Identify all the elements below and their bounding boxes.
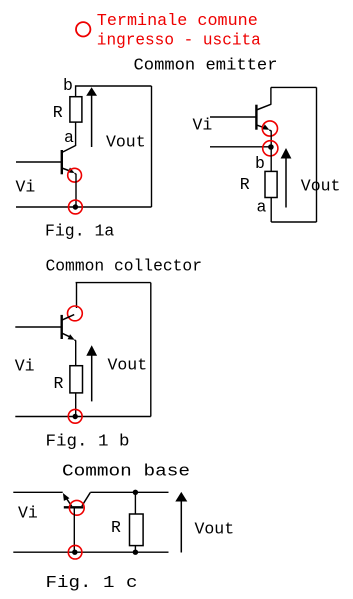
resistor R1 (Fig 1a) — [70, 97, 82, 122]
wire base input (right fig) — [210, 116, 256, 118]
wire base input (Fig 1b) — [15, 326, 61, 328]
svg-text:ingresso - uscita: ingresso - uscita — [97, 30, 261, 49]
resistor R4 — [130, 514, 144, 546]
Vout arrowhead (Fig 1b) — [86, 345, 97, 356]
wire top (Fig 1a) — [76, 86, 152, 97]
wire resistor bottom (Fig 1c) — [134, 546, 136, 553]
Vout arrowhead (right fig) — [281, 148, 292, 159]
wire resistor top (Fig 1c) — [134, 492, 136, 514]
svg-text:Common emitter: Common emitter — [134, 56, 278, 75]
transistor Q4 emitter arrowhead — [63, 493, 70, 501]
svg-text:b: b — [255, 154, 265, 173]
transistor Q1 collector diagonal — [62, 146, 76, 153]
legend terminal circle — [76, 22, 90, 36]
transistor Q3 emitter diagonal — [62, 333, 72, 338]
svg-text:a: a — [257, 197, 267, 216]
transistor Q3 collector diagonal — [62, 315, 74, 321]
svg-text:Vout: Vout — [108, 356, 148, 375]
junction dot base bottom (Fig 1c) — [72, 550, 77, 555]
wire collector up (right fig) — [270, 87, 272, 104]
svg-text:Vout: Vout — [195, 520, 235, 539]
wire bottom (Fig 1c) — [13, 551, 168, 553]
wire top (right fig) — [271, 86, 317, 88]
red circle bottom terminal (Fig 1a) — [69, 200, 83, 214]
Vout arrow line (right fig) — [285, 157, 287, 208]
transistor Q4 base bar — [64, 506, 84, 508]
svg-text:Fig. 1 c: Fig. 1 c — [46, 573, 138, 592]
wire base down (Fig 1c) — [73, 507, 75, 552]
transistor Q4 collector diagonal — [82, 493, 90, 507]
junction dot resistor bottom (Fig 1c) — [133, 550, 138, 555]
wire resistor to bottom (Fig 1b) — [75, 393, 77, 417]
wire collector down (Fig 1b) — [76, 283, 78, 308]
svg-text:R: R — [240, 175, 250, 194]
wire base input (Fig 1a) — [16, 161, 61, 163]
svg-text:b: b — [63, 76, 73, 95]
transistor Q2 emitter arrowhead — [262, 124, 269, 129]
transistor Q1 emitter arrowhead — [68, 168, 75, 174]
junction dot (right fig) — [268, 144, 274, 150]
Vout arrow line (Fig 1c) — [180, 501, 182, 553]
Vout arrow line (Fig 1a) — [91, 95, 93, 147]
wire top left (Fig 1c) — [13, 491, 62, 493]
Vout arrowhead (Fig 1c) — [175, 492, 187, 502]
wire resistor to bottom (right fig) — [270, 198, 272, 223]
wire emitter down (Fig 1b) — [75, 340, 76, 366]
wire bottom (Fig 1b) — [15, 416, 151, 418]
svg-text:Vi: Vi — [16, 178, 36, 197]
svg-text:Terminale comune: Terminale comune — [97, 11, 258, 30]
transistor Q4 emitter diagonal — [67, 499, 72, 507]
red circle emitter terminal (right fig) — [262, 121, 277, 136]
wire input 2 (right fig) — [210, 146, 271, 148]
wire right side (Fig 1a) — [151, 86, 153, 207]
junction dot bottom (Fig 1b) — [73, 414, 78, 419]
svg-text:Vi: Vi — [18, 503, 38, 522]
wire emitter down (right fig) — [269, 130, 271, 147]
transistor Q3 emitter arrowhead — [68, 334, 75, 339]
svg-text:Common base: Common base — [62, 462, 190, 481]
svg-text:Fig. 1 b: Fig. 1 b — [46, 432, 130, 451]
svg-text:Vi: Vi — [15, 357, 35, 376]
Vout arrowhead (Fig 1a) — [86, 87, 97, 96]
svg-text:R: R — [54, 374, 64, 393]
svg-text:R: R — [53, 103, 63, 122]
wire junction to resistor (right fig) — [270, 147, 272, 171]
svg-text:Fig. 1a: Fig. 1a — [45, 221, 114, 240]
transistor Q1 base bar — [61, 150, 63, 174]
red circle emitter terminal (Fig 1a) — [68, 168, 82, 182]
wire right side (right fig) — [316, 87, 318, 222]
transistor Q2 base bar — [255, 105, 257, 130]
wire top (Fig 1b) — [76, 282, 151, 284]
resistor R2 — [265, 171, 277, 197]
svg-text:Vi: Vi — [193, 116, 213, 135]
red circle collector terminal (Fig 1b) — [68, 306, 83, 321]
transistor Q2 collector diagonal — [256, 104, 271, 110]
wire bottom (right fig) — [271, 221, 316, 223]
svg-text:Vout: Vout — [106, 132, 146, 151]
transistor Q2 emitter diagonal — [256, 125, 266, 128]
svg-text:Vout: Vout — [301, 177, 341, 196]
transistor Q3 base bar — [61, 315, 63, 339]
wire right side (Fig 1b) — [150, 283, 152, 417]
transistor Q1 emitter diagonal — [62, 168, 72, 172]
red circle bottom terminal (Fig 1c) — [68, 545, 82, 559]
Vout arrow line (Fig 1b) — [91, 355, 93, 402]
junction dot bottom (Fig 1a) — [73, 204, 78, 209]
svg-text:Common collector: Common collector — [46, 257, 203, 276]
junction dot resistor top (Fig 1c) — [133, 490, 138, 495]
red circle junction terminal (right fig) — [263, 141, 278, 156]
resistor R3 — [70, 366, 83, 393]
wire bottom (Fig 1a) — [16, 206, 152, 208]
svg-text:a: a — [64, 128, 74, 147]
wire emitter down (Fig 1a) — [75, 173, 77, 207]
red circle bottom terminal (Fig 1b) — [68, 409, 82, 423]
svg-text:R: R — [111, 518, 121, 537]
red circle base terminal (Fig 1c) — [69, 500, 84, 515]
wire resistor to collector (Fig 1a) — [75, 122, 77, 146]
wire top right (Fig 1c) — [90, 491, 168, 493]
